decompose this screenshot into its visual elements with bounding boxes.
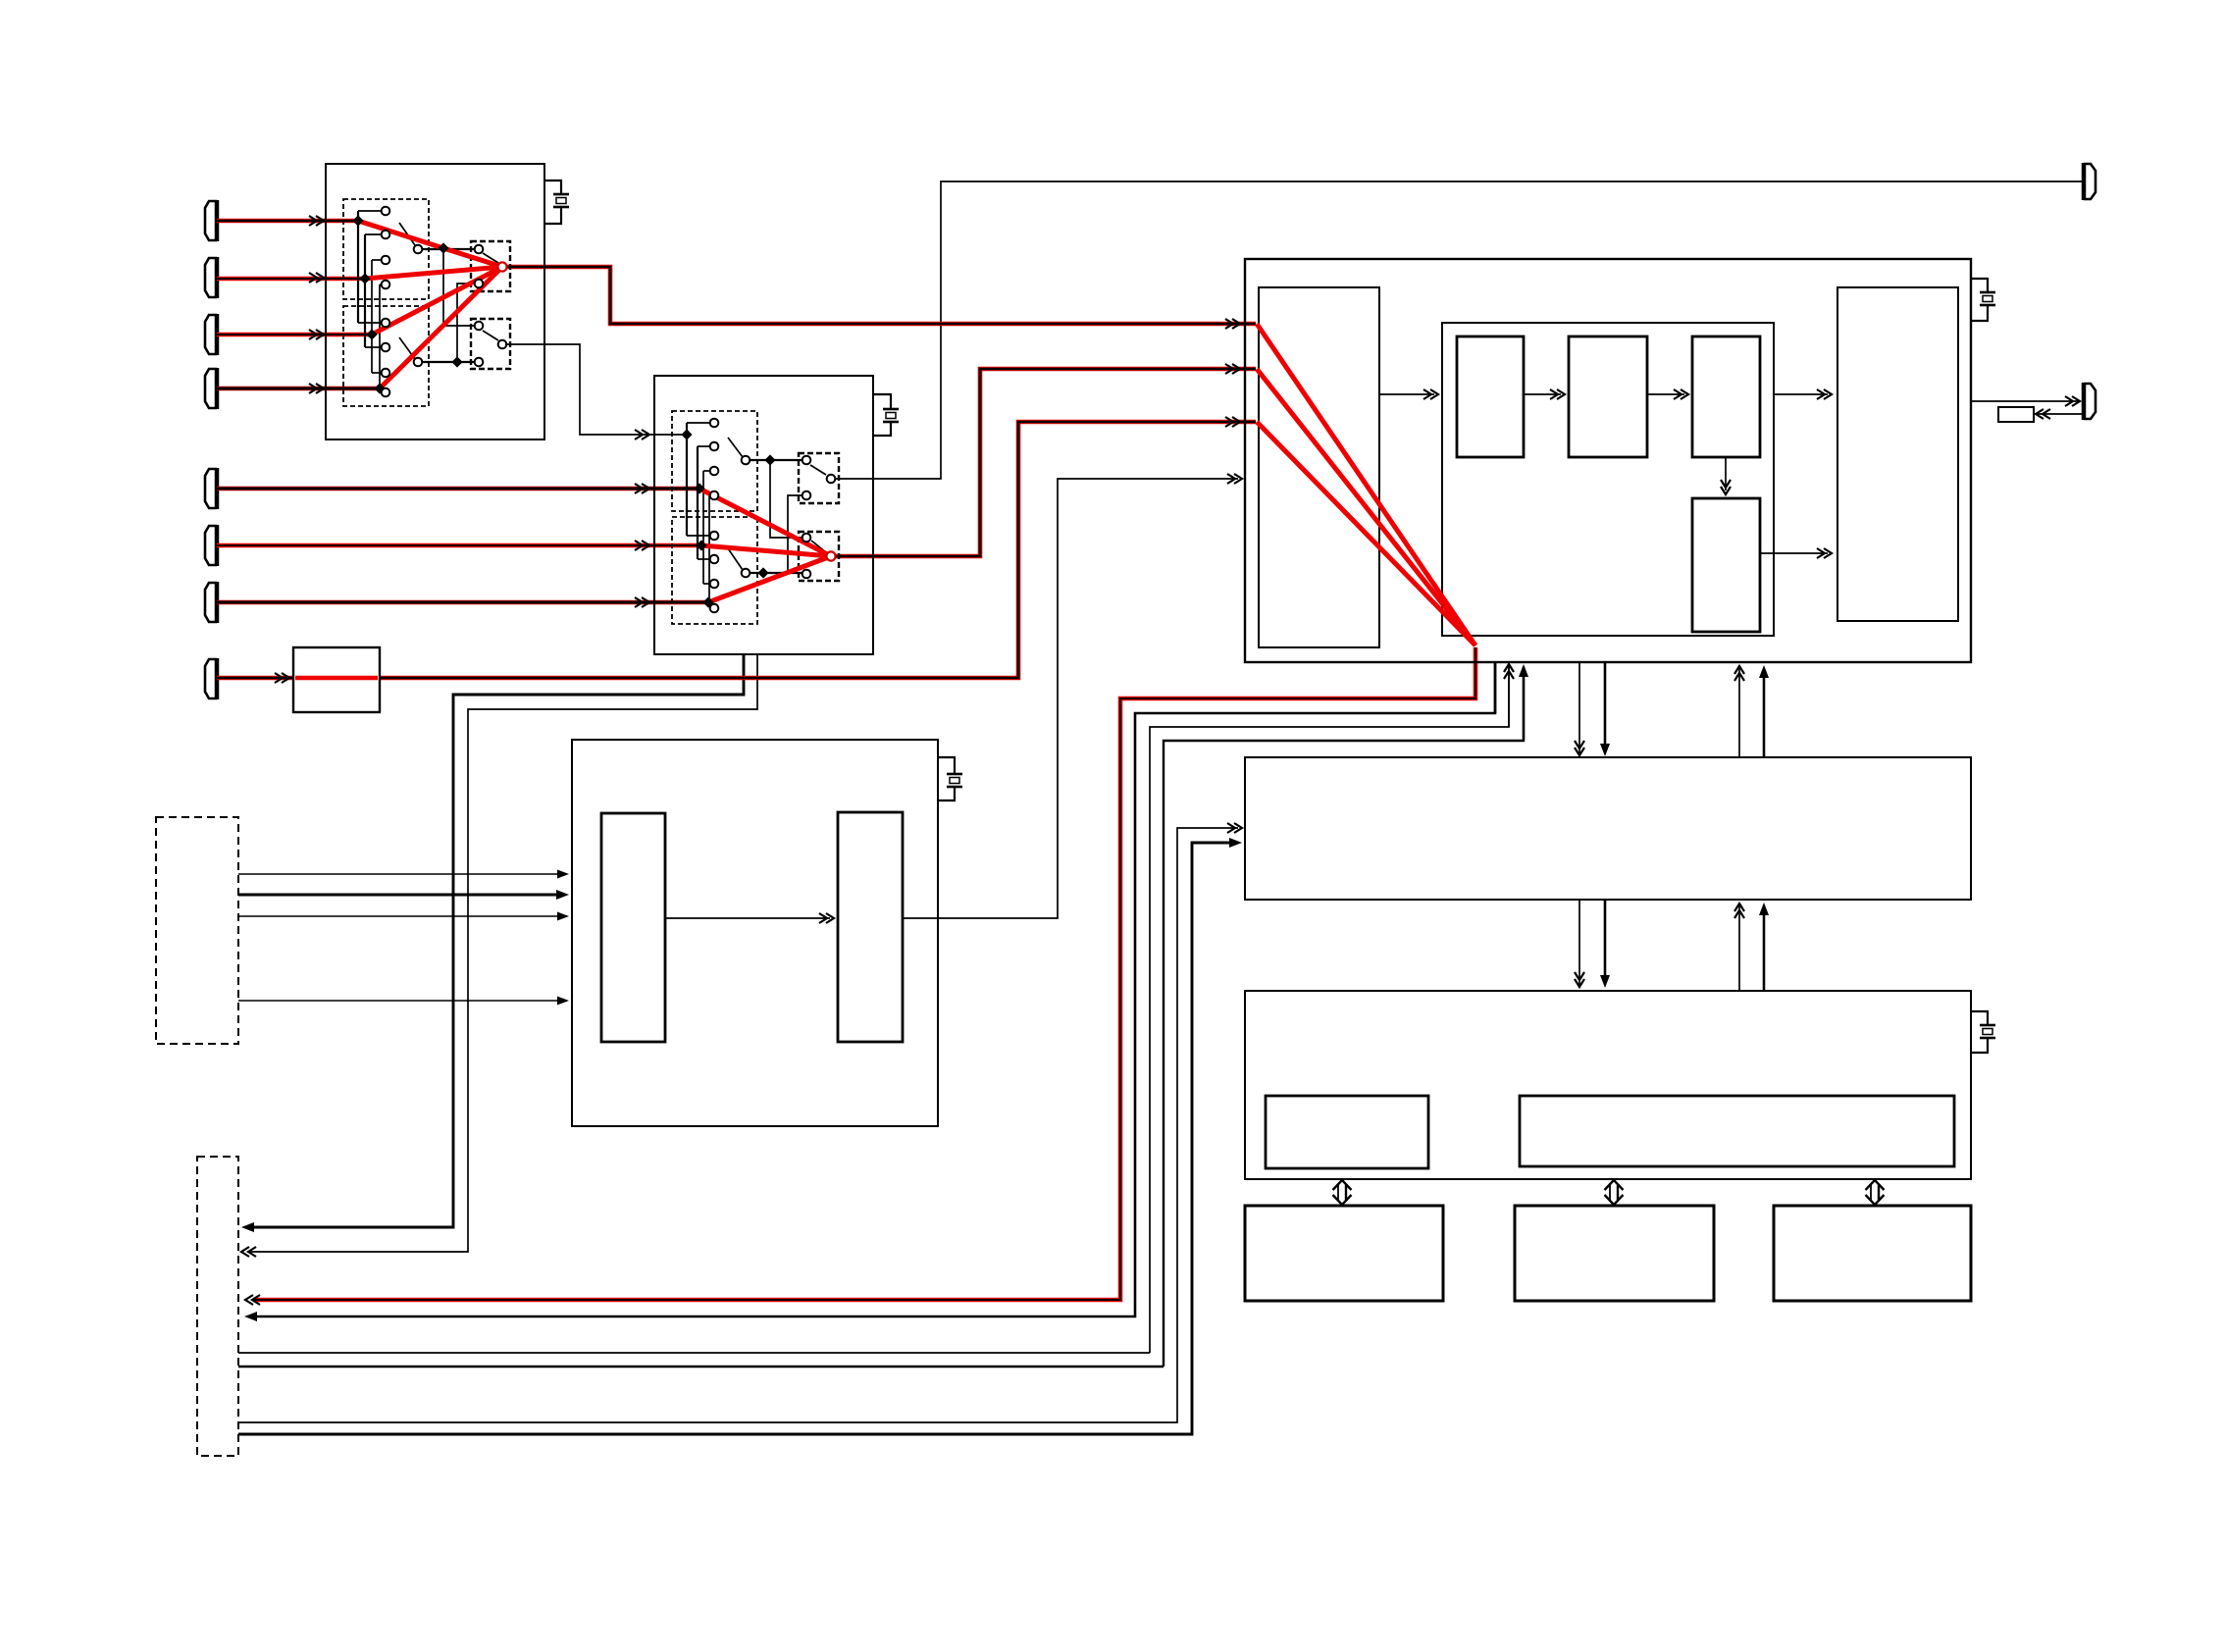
red highlighted wire: U2 output to main IC U3 video input 2: [835, 369, 1256, 556]
U3 input selector block (tall left rect): [1259, 287, 1379, 647]
wire from switch S3 output to top-right connector J9: [835, 181, 2083, 479]
U6 internal block output driver: [838, 812, 903, 1042]
red highlighted wire: U1 output to main IC U3 video input 1: [502, 267, 1256, 324]
wire W1 from J1 into U1: [217, 219, 358, 224]
U5 internal block bus interface: [1520, 1096, 1954, 1166]
wire connector B to U3 bottom pin (chevron up): [1150, 666, 1509, 1353]
crystal X3 wiring on U3: [1971, 279, 1988, 292]
arrow selector to processing block: [1379, 393, 1434, 395]
dashed external unit B (service connector): [197, 1157, 238, 1456]
bidirectional bus arrow U5 to memory M1: [1337, 1185, 1339, 1200]
U2 internal bus wiring: [687, 423, 711, 608]
U3 processing sub-block: [1442, 323, 1774, 636]
U2 fixed contacts column: [710, 419, 719, 613]
wire from AV switch U2 lower output down to service connector B: [245, 653, 744, 1227]
termination block R1: [1998, 407, 2034, 422]
SW1 branch down to S2b pin: [443, 252, 475, 326]
wire W6 from J6 into U2: [217, 543, 701, 548]
connector J4: [205, 369, 217, 408]
SW4 moving contact wire to junction: [750, 572, 802, 574]
data arrow U4 to U3 (solid up): [1763, 670, 1766, 757]
dashed switch block S3a in U2: [672, 411, 757, 511]
red highlighted path W7 to S4b common: [708, 556, 831, 602]
S4a lever: [810, 465, 826, 475]
crystal X5: [1980, 1024, 1995, 1027]
SW2 moving contact circle: [414, 358, 423, 367]
solid arrow into service connector B pin 1: [241, 1222, 254, 1232]
red highlighted path W2 to S2a common: [365, 267, 502, 279]
red highlighted diagonal path input2 to monitor-out node: [1257, 369, 1475, 645]
wire connector B to sub IC U4 input 1: [238, 828, 1238, 1422]
main video IC U3 outer box: [1245, 259, 1971, 662]
dashed switch block S4a in U2: [799, 453, 839, 503]
chevron arrow into U3 input 1: [1232, 319, 1240, 329]
wire 2 from AV switch U2 bottom to service connector B: [247, 653, 757, 1252]
SW3 moving contact circle: [742, 456, 750, 465]
U1 switch lever SW2: [399, 337, 415, 359]
link wire S4a pin2 to S4b pin2: [788, 495, 802, 573]
SW2 branch up to S2a pin: [457, 284, 475, 358]
U3 bottom plain stub to bus: [1494, 662, 1497, 713]
crystal X3: [1980, 291, 1995, 294]
connector J6: [205, 526, 217, 565]
data arrow U4 to U3 (chevron up): [1738, 668, 1740, 757]
S4a common contact: [827, 475, 836, 484]
U5 internal block CPU: [1266, 1096, 1428, 1168]
connector J3: [205, 315, 217, 354]
data arrow U4 to U5 (chevron down): [1578, 900, 1580, 985]
U3 output encoder block (tall right rect): [1837, 287, 1958, 621]
wire W3 from J3 into U1: [217, 333, 372, 337]
chevron arrow into J10: [2072, 396, 2080, 406]
chevron arrow into service connector B pin 2: [241, 1247, 249, 1257]
arrow P3 down to P4: [1725, 457, 1727, 490]
S2a/S2b pin contacts: [475, 245, 484, 367]
dashed switch block S3b in U2: [672, 517, 757, 624]
wire from U1 S2b switch to AV switch U2 input: [505, 344, 687, 435]
crystal X5 wiring on U5: [1971, 1011, 1988, 1025]
U2 switch lever SW4: [728, 548, 743, 570]
chevron arrow into U4 input 1: [1234, 823, 1242, 833]
U1 fixed contacts column: [382, 207, 390, 397]
red highlighted path W5 to S4b common: [699, 489, 831, 556]
dashed switch block S2a (output select upper) in U1: [471, 241, 510, 291]
sub IC U4 (wide box): [1245, 757, 1971, 900]
wire A to U6 input 1: [238, 873, 565, 875]
crystal X2: [883, 408, 899, 411]
SW2 moving contact wire to junction: [422, 361, 475, 363]
red highlighted path W6 to S4b common: [701, 545, 831, 556]
connector J2: [205, 258, 217, 297]
SW1 moving contact wire to junction: [422, 248, 475, 250]
crystal X6: [947, 773, 962, 776]
dashed switch block S2b (output select lower) in U1: [471, 319, 510, 369]
S2a lever: [483, 253, 498, 263]
red chevron arrow into service connector B: [245, 1295, 253, 1305]
U6 internal block front-end: [601, 813, 665, 1042]
arrow processing block to encoder: [1774, 393, 1828, 395]
data arrow U3 to U4 (chevron down): [1578, 662, 1580, 753]
SW3 moving contact wire to junction: [750, 459, 802, 461]
junction diamonds in U2: [681, 429, 775, 607]
processing stage rect P2: [1569, 336, 1647, 457]
chevron arrow into termination R1: [2036, 409, 2044, 419]
data arrow U4 to U5 (solid down): [1604, 900, 1607, 983]
red highlighted diagonal path input3 to monitor-out node: [1257, 422, 1475, 645]
red highlighted path W1 through S1a to S2a common: [358, 221, 502, 267]
connector J10 (video out): [2084, 384, 2096, 419]
wire W7 from J7 into U2: [217, 600, 708, 605]
buffer amp A1: [293, 647, 380, 712]
red highlighted wire: buffer A1 output to main IC U3 video input 3: [380, 422, 1256, 678]
processing stage rect P3: [1692, 336, 1760, 457]
wire from camera module U6 output up to main IC U3 pin (video in 4): [903, 479, 1238, 918]
S2b common contact: [498, 340, 507, 349]
data arrow U3 to U4 (solid down): [1604, 662, 1607, 751]
wire W5 from J5 into U2: [217, 487, 699, 491]
wire W2 from J2 into U1: [217, 277, 365, 282]
U1 internal bus wiring: [358, 211, 382, 392]
processing stage rect P4: [1692, 498, 1760, 632]
S4b common contact (red, output node of U2): [826, 551, 835, 560]
dashed switch block S1b in U1: [343, 306, 429, 406]
AV switch unit U2 outer box: [654, 376, 873, 654]
wire A to U6 input 3: [238, 915, 565, 917]
wire connector B to sub IC U4 input 2: [238, 843, 1236, 1434]
solid arrow into U4 input 2: [1229, 838, 1242, 848]
memory M1: [1245, 1206, 1443, 1301]
connector J9 (top right): [2084, 164, 2096, 199]
switch unit U1 outer box: [326, 164, 544, 439]
SW3 branch down to S4b pin: [770, 464, 802, 538]
crystal X1 wiring on U1: [544, 181, 561, 194]
solid arrow up into U3 bottom: [1519, 664, 1528, 677]
connector J1: [205, 201, 217, 240]
crystal X2 wiring on U2: [873, 394, 891, 409]
S4a/S4b pin contacts: [802, 456, 811, 579]
bus up-arrow (chevron) into U3 bottom: [1508, 666, 1510, 727]
wire A to U6 input 2 (thick): [238, 894, 565, 897]
SW1 moving contact circle: [414, 245, 423, 254]
chevron arrow into U2 input 1: [642, 430, 649, 439]
module U6 outer box: [572, 740, 938, 1126]
red highlighted path W4 to S2a common: [380, 267, 502, 388]
solid arrow into connector B: [244, 1312, 257, 1321]
red highlighted wire: U3 monitor-out down and left to service connector B: [253, 647, 1475, 1300]
wire A to U6 input 4: [238, 1000, 565, 1002]
dashed switch block S4b in U2: [799, 532, 839, 581]
connector J7: [205, 583, 217, 622]
wire U3 bottom pin to connector B (sync out): [250, 662, 1495, 1316]
data arrow U5 to U4 (solid up): [1763, 907, 1766, 991]
chevron arrow up into U3 bottom: [1504, 664, 1514, 672]
chevron arrow into U3 input 3: [1232, 417, 1240, 427]
S2a common contact (red, output node of U1): [497, 262, 506, 271]
SW4 moving contact circle: [742, 569, 750, 578]
junction diamonds in U1: [352, 215, 462, 393]
connector J5: [205, 469, 217, 508]
dashed external unit A (camera side): [156, 817, 238, 1044]
U2 switch lever SW3: [728, 438, 743, 457]
wire connector B to U3 bottom pin (solid up): [1164, 667, 1524, 1367]
memory M2: [1515, 1206, 1714, 1301]
red highlighted diagonal path input1 to monitor-out node: [1257, 324, 1475, 645]
crystal X1: [553, 193, 569, 196]
crystal X6 wiring on U6: [938, 757, 955, 774]
arrow P4 to encoder: [1760, 552, 1828, 554]
connector J8: [205, 659, 217, 698]
processing stage rect P1: [1457, 336, 1524, 457]
controller IC U5: [1245, 991, 1971, 1179]
bus up-arrow (solid) into U3 bottom: [1523, 667, 1525, 741]
wire W4 from J4 into U1: [217, 387, 380, 391]
S2b lever: [483, 331, 498, 340]
arrow front-end to output driver: [665, 917, 830, 919]
chevron arrow into U3 at y488: [1234, 474, 1242, 484]
dashed switch block S1a in U1: [343, 199, 429, 299]
chevron arrow into U3 input 2: [1232, 364, 1240, 374]
data arrow U5 to U4 (chevron up): [1738, 905, 1740, 991]
red highlighted path W3 to S2a common: [372, 267, 502, 335]
bidirectional bus arrow U5 to memory M2: [1609, 1185, 1611, 1200]
memory M3: [1774, 1206, 1971, 1301]
red highlighted wire through buffer A1: [295, 676, 378, 681]
U1 switch lever SW1: [399, 223, 415, 245]
bidirectional bus arrow U5 to memory M3: [1870, 1185, 1872, 1200]
arrow P2 to P3: [1647, 393, 1684, 395]
wire W8 from J8 into buffer A1: [217, 676, 293, 681]
S4b lever: [811, 541, 826, 552]
U3 output wire to connector J10: [1971, 400, 2078, 402]
return wire J10 to termination R1: [2038, 413, 2084, 415]
arrow P1 to P2: [1524, 393, 1561, 395]
